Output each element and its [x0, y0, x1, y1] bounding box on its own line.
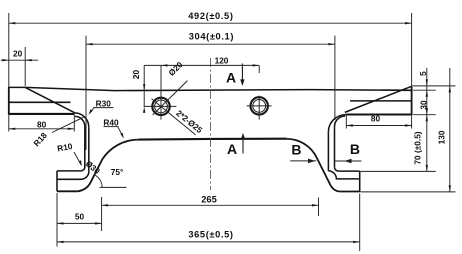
svg-text:80: 80: [37, 119, 47, 129]
svg-text:304(±0.1): 304(±0.1): [189, 32, 234, 42]
leader R30: [90, 108, 94, 113]
hole left crosshair: [144, 65, 177, 119]
left S-curve R40 ramp: [76, 140, 138, 192]
arrows 5 right stack: [426, 79, 428, 86]
svg-text:50: 50: [75, 212, 85, 222]
A top stem: [241, 64, 243, 81]
top edge of beam: [9, 87, 412, 90]
right end vertical edge: [411, 86, 413, 115]
left foot bottom: [57, 190, 76, 192]
ext right y191.9: [361, 191, 456, 193]
svg-text:R40: R40: [103, 117, 119, 127]
left outer corner arc: [75, 113, 89, 127]
svg-text:365(±0.5): 365(±0.5): [188, 229, 233, 239]
arrows 30 right stack: [426, 108, 428, 115]
hole left inner circle: [155, 100, 168, 113]
hole right outer circle: [251, 97, 268, 114]
svg-text:492(±0.5): 492(±0.5): [188, 11, 233, 21]
dim line 80 left: [9, 128, 75, 130]
arrow R10 leader: [79, 160, 82, 166]
hat top line: [139, 138, 287, 141]
svg-text:120: 120: [215, 56, 229, 66]
ext line 265 right: [318, 198, 320, 217]
right inner wall: [334, 127, 336, 168]
dim line 50: [57, 222, 102, 224]
left foot top: [57, 170, 81, 172]
arrow section A top: [240, 79, 244, 86]
ext line foot right: [359, 194, 361, 252]
svg-text:A: A: [226, 70, 236, 86]
dim line 80 right: [346, 125, 411, 127]
right stack dim line x427: [426, 68, 428, 171]
ext right y114.7: [413, 114, 436, 116]
arrows 130: [449, 86, 451, 93]
svg-text:130: 130: [436, 130, 446, 144]
svg-text:20: 20: [131, 70, 141, 80]
vertical dash-dot centerline: [210, 58, 212, 190]
A bottom stem: [242, 139, 244, 154]
left bottom edge: [9, 113, 75, 115]
leader R40: [118, 127, 123, 136]
left outer wall: [88, 127, 90, 171]
arrows 304: [86, 43, 93, 45]
arrows 50: [57, 222, 64, 224]
svg-text:B: B: [350, 141, 360, 157]
arrows 492: [9, 22, 16, 24]
ext line right overall: [411, 13, 413, 86]
dim line 20 top-left: [1, 59, 39, 61]
75 degree angle arc: [94, 175, 102, 188]
leader 2x2-phi25: [152, 99, 196, 135]
section A line stems: [241, 64, 244, 154]
ext line left overall: [8, 13, 10, 87]
right foot mid line with fillet: [328, 171, 359, 179]
svg-text:20: 20: [13, 49, 23, 59]
ext line foot left: [56, 193, 58, 247]
arrows 20 hole (outside, vertical): [143, 84, 145, 91]
svg-text:70 (±0.5): 70 (±0.5): [412, 131, 422, 164]
ext right y85.9: [412, 85, 455, 87]
right outer corner arc: [328, 115, 346, 133]
right R10 fillet: [334, 167, 338, 171]
right inner corner arc: [335, 116, 346, 127]
underline R30: [93, 107, 113, 109]
dim line 120: [144, 64, 259, 66]
hole right inner circle: [253, 100, 266, 113]
right foot top: [338, 170, 359, 172]
svg-text:75°: 75°: [111, 167, 124, 177]
leader R10: [74, 152, 81, 165]
dim line 365: [57, 241, 360, 243]
left foot mid line with fillet: [57, 171, 89, 179]
left mid slot line: [9, 101, 71, 103]
right foot right edge: [359, 171, 361, 192]
svg-text:30: 30: [418, 100, 428, 110]
ext line 80 right: [345, 114, 347, 129]
right taper diagonal: [345, 86, 412, 112]
left inner wall: [84, 126, 86, 167]
arrow section B right: [344, 159, 351, 164]
ext right y171.4: [361, 170, 436, 172]
leader R18: [52, 117, 85, 133]
left inner corner arc: [75, 116, 85, 126]
arrows 80 right: [346, 124, 353, 126]
left taper diagonal: [25, 87, 74, 112]
B left arrow line: [290, 160, 316, 162]
dim line 492: [9, 22, 412, 24]
svg-text:5: 5: [418, 71, 428, 76]
left R10 fillet: [81, 167, 85, 171]
arrows 80 left: [9, 128, 16, 130]
arrow section A bottom: [241, 133, 245, 140]
arrows 20 top-left (outside): [2, 59, 9, 61]
svg-text:265: 265: [201, 194, 217, 204]
dim line 265: [102, 204, 319, 206]
ext right y90.2: [413, 89, 436, 91]
svg-text:80: 80: [371, 113, 381, 123]
dim line 304: [86, 43, 335, 45]
right bottom edge: [346, 113, 412, 115]
ext line 80 left: [73, 115, 75, 132]
right S-curve ramp: [287, 139, 341, 192]
arrows 120: [161, 64, 168, 66]
ext line 20 top-left: [24, 47, 26, 86]
arrow R30 leader: [89, 109, 93, 115]
svg-text:B: B: [291, 142, 301, 158]
B right arrow line: [335, 160, 362, 162]
ext line 304 left: [85, 36, 87, 150]
ext line 265 left: [101, 197, 103, 231]
ext line 304 right: [334, 36, 336, 120]
svg-text:A: A: [227, 141, 237, 157]
arrows 70 right stack: [426, 165, 428, 172]
underline R40: [104, 126, 119, 128]
left foot left edge: [56, 171, 58, 191]
hole left outer circle: [152, 98, 169, 115]
right outer wall: [327, 132, 329, 171]
75 degree base line: [100, 186, 127, 188]
svg-text:R30: R30: [96, 99, 112, 109]
hole right crosshair: [247, 65, 272, 119]
right foot bottom: [340, 191, 359, 193]
dim line 20 hole vertical: [143, 65, 145, 106]
leader phi20: [153, 81, 188, 115]
arrows 265: [102, 204, 109, 206]
arrows 365: [57, 241, 64, 243]
arrow R40 leader: [120, 133, 124, 139]
left end vertical edge: [8, 87, 10, 115]
right stack dim line x450: [449, 68, 451, 192]
arrow section B left: [308, 159, 315, 164]
right mid slot line: [350, 100, 412, 102]
